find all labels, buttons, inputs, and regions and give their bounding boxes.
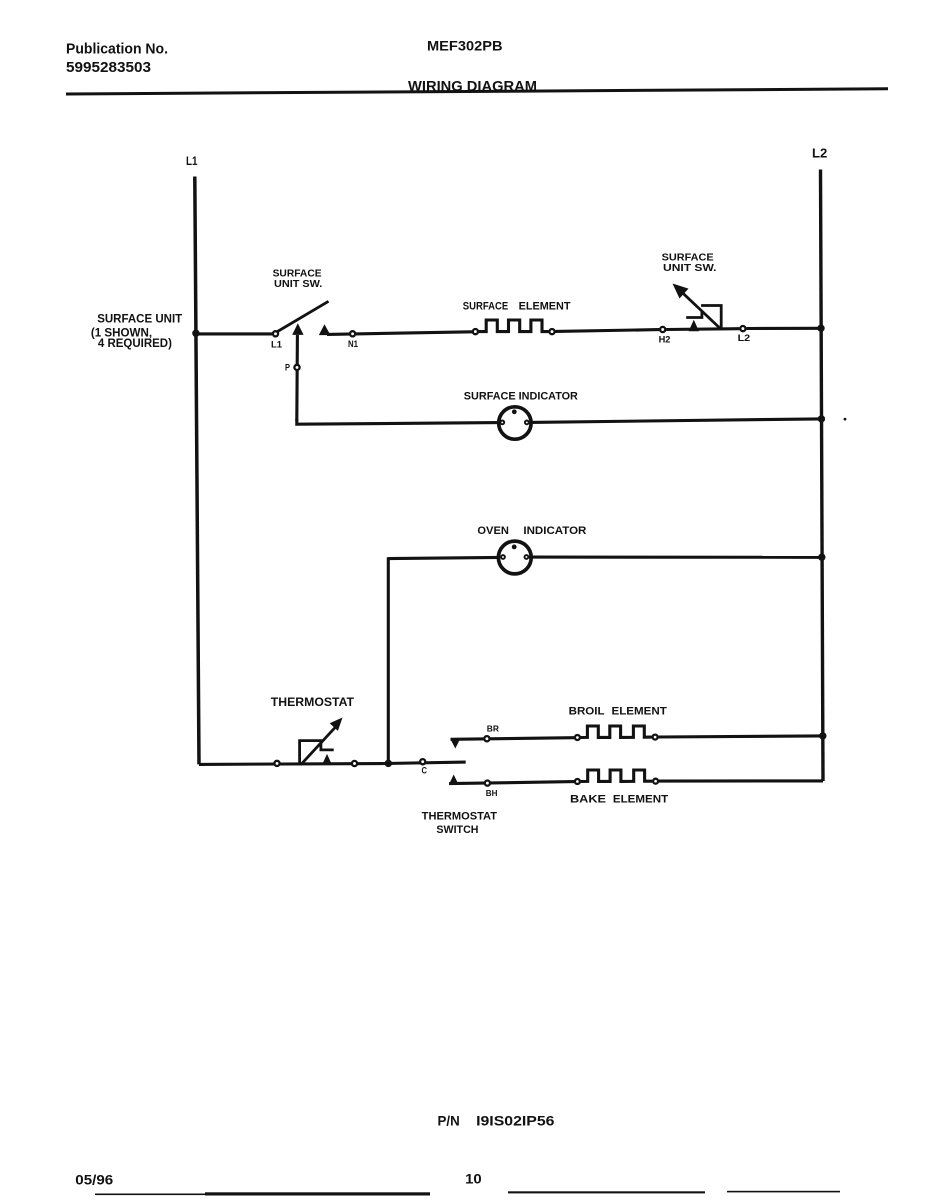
wire broil element to L2 rail [658, 736, 820, 737]
wire H2 to L2 contact [666, 327, 739, 331]
wire bake element to L2 rail corner [659, 779, 823, 782]
svg-text:N1: N1 [348, 339, 358, 349]
terminal P [294, 365, 299, 370]
thermostat arrowhead [330, 718, 343, 731]
svg-text:I9IS02IP56: I9IS02IP56 [476, 1113, 555, 1129]
bake element resistor [581, 770, 653, 782]
terminal L2 [740, 326, 745, 331]
svg-text:05/96: 05/96 [75, 1172, 113, 1188]
junction dot broil at rail [819, 732, 826, 739]
svg-text:BAKE: BAKE [570, 794, 606, 806]
label surface element [463, 300, 571, 312]
label surface unit sw (right) [662, 251, 717, 274]
wire broil branch [451, 738, 575, 740]
svg-text:BH: BH [486, 788, 498, 798]
wire thermostat row [199, 762, 466, 764]
svg-text:L2: L2 [812, 146, 827, 160]
surface indicator filament dot [512, 409, 517, 414]
svg-text:10: 10 [465, 1172, 482, 1187]
wire L1 rail [195, 177, 199, 765]
junction on L1 rail [192, 330, 199, 337]
right switch arrowhead [673, 284, 689, 299]
bake element right terminal [653, 779, 658, 784]
svg-text:UNIT SW.: UNIT SW. [274, 278, 322, 290]
svg-text:L1: L1 [271, 339, 282, 349]
svg-text:Publication No.: Publication No. [66, 42, 168, 58]
junction dot oven branch at thermostat row [385, 760, 392, 767]
wire P branch corner to indicator [297, 419, 500, 424]
surface unit switch contact N triangle [319, 324, 331, 335]
surface indicator right pin [525, 421, 529, 425]
svg-text:BROIL: BROIL [569, 706, 605, 718]
svg-text:4 REQUIRED): 4 REQUIRED) [98, 336, 172, 350]
wire L2 contact to rail [746, 327, 819, 330]
svg-text:ELEMENT: ELEMENT [613, 794, 669, 806]
svg-text:SURFACE INDICATOR: SURFACE INDICATOR [464, 390, 578, 402]
label bake element [570, 794, 668, 806]
wire surface indicator to L2 rail [529, 419, 819, 423]
svg-text:THERMOSTAT: THERMOSTAT [271, 695, 355, 709]
right switch loop [701, 306, 721, 330]
wire P branch vertical [295, 335, 299, 421]
oven indicator right pin [525, 555, 529, 559]
surface indicator left pin [500, 421, 504, 425]
oven indicator left pin [501, 555, 505, 559]
svg-text:P/N: P/N [438, 1113, 460, 1129]
junction dot on L2 rail top wire [817, 325, 824, 332]
svg-text:UNIT SW.: UNIT SW. [663, 262, 717, 274]
svg-text:ELEMENT: ELEMENT [519, 300, 571, 312]
label surface unit [91, 312, 183, 351]
svg-text:ELEMENT: ELEMENT [612, 706, 668, 718]
right switch step bar [686, 311, 702, 318]
thermostat switch bake contact triangle [449, 775, 459, 785]
wire element to H2 [555, 330, 659, 332]
right switch blade [679, 290, 721, 330]
svg-text:5995283503: 5995283503 [66, 60, 151, 76]
broil element resistor [581, 726, 652, 738]
broil element left terminal [575, 735, 580, 740]
svg-text:INDICATOR: INDICATOR [523, 525, 586, 537]
wire oven branch corner [388, 557, 500, 558]
wire L2 rail [821, 170, 824, 782]
junction dot oven indicator at rail [818, 554, 825, 561]
oven indicator filament dot [512, 545, 517, 550]
svg-text:SURFACE: SURFACE [463, 300, 508, 312]
svg-text:SURFACE UNIT: SURFACE UNIT [97, 312, 183, 326]
svg-text:MEF302PB: MEF302PB [427, 37, 503, 53]
svg-text:BR: BR [487, 724, 499, 734]
terminal N1 [350, 331, 355, 336]
svg-text:L2: L2 [738, 333, 751, 343]
svg-text:L1: L1 [186, 154, 198, 168]
surface element left terminal [473, 329, 478, 334]
thermostat right terminal [352, 761, 357, 766]
svg-text:THERMOSTAT: THERMOSTAT [422, 811, 498, 823]
header rule [66, 89, 888, 94]
surface unit switch blade [278, 301, 329, 331]
thermostat switch broil contact triangle [450, 739, 460, 749]
surface unit switch contact P triangle [292, 323, 303, 335]
thermostat loop [300, 741, 334, 765]
wire L1 rail to switch contact [196, 332, 272, 335]
broil element right terminal [653, 735, 658, 740]
terminal BR [484, 736, 489, 741]
wire oven indicator to L2 rail [529, 556, 820, 559]
terminal H2 [660, 327, 665, 332]
junction dot surface indicator at rail [818, 415, 825, 422]
wire bake branch [449, 782, 574, 784]
wire oven branch vertical [387, 557, 390, 763]
label thermostat switch [422, 811, 498, 836]
thermostat contact triangle [322, 754, 331, 764]
svg-text:C: C [422, 765, 428, 775]
right switch N triangle [689, 320, 699, 331]
surface unit switch contact L1 [273, 331, 278, 336]
thermostat blade [301, 727, 336, 765]
svg-text:OVEN: OVEN [477, 525, 509, 537]
label surface unit sw (left) [273, 268, 323, 290]
svg-text:P: P [285, 362, 290, 372]
surface element resistor [479, 320, 549, 332]
surface indicator lamp [499, 407, 531, 439]
bake element left terminal [575, 779, 580, 784]
terminal BH [485, 781, 490, 786]
label broil element [569, 706, 667, 718]
scan edge artifact bottom [95, 1191, 840, 1196]
stray speck [844, 418, 847, 421]
svg-text:H2: H2 [659, 334, 671, 344]
label oven indicator [477, 525, 586, 537]
wire N triangle to N1 and surface element [327, 332, 472, 335]
surface element right terminal [549, 329, 554, 334]
terminal C [420, 759, 425, 764]
oven indicator lamp [498, 541, 531, 574]
thermostat left terminal [274, 761, 279, 766]
label P/N [438, 1113, 555, 1129]
svg-text:SWITCH: SWITCH [436, 824, 478, 836]
